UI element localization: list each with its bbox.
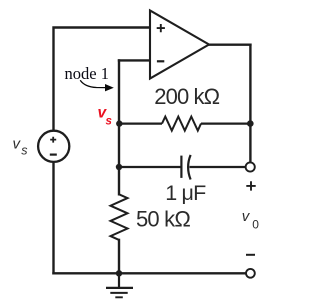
label vs (source, left) <box>13 135 28 157</box>
node feedback junction dot <box>247 120 254 127</box>
label + (vo) <box>246 181 255 190</box>
label vo <box>242 208 259 231</box>
svg-text:50 kΩ: 50 kΩ <box>136 206 190 231</box>
voltage source Vs <box>38 131 69 162</box>
node bottom junction dot <box>116 270 122 276</box>
wire mid vertical upper (node 1 to vs node to cap node) <box>118 60 120 194</box>
capacitor C1 1uF <box>119 155 245 180</box>
wire op-amp output <box>209 44 250 46</box>
terminal vo+ <box>246 162 255 171</box>
wire mid vertical lower <box>118 240 120 273</box>
wire top (+ input to left rail) <box>54 28 151 131</box>
node cap junction dot <box>116 164 122 170</box>
wire left rail below source <box>52 162 54 273</box>
label - (vo) <box>246 254 255 256</box>
resistor R1 200k <box>119 117 250 131</box>
svg-text:s: s <box>106 116 112 128</box>
op-amp U1 <box>150 11 209 79</box>
wire inverting input <box>119 59 150 61</box>
node 1 arrow <box>80 80 106 87</box>
svg-text:s: s <box>21 143 27 157</box>
resistor R2 50k <box>111 194 128 240</box>
svg-text:0: 0 <box>252 217 259 231</box>
svg-text:1 μF: 1 μF <box>165 181 206 205</box>
svg-text:node 1: node 1 <box>65 64 109 83</box>
wire bottom rail <box>54 272 246 274</box>
label vs (red, node) <box>98 105 112 128</box>
wire right rail to vo+ terminal <box>249 124 251 163</box>
node vs junction dot <box>116 120 122 126</box>
wire right rail upper <box>249 45 251 124</box>
ground <box>106 273 133 297</box>
svg-text:200 kΩ: 200 kΩ <box>154 84 219 109</box>
terminal vo- <box>246 269 255 278</box>
